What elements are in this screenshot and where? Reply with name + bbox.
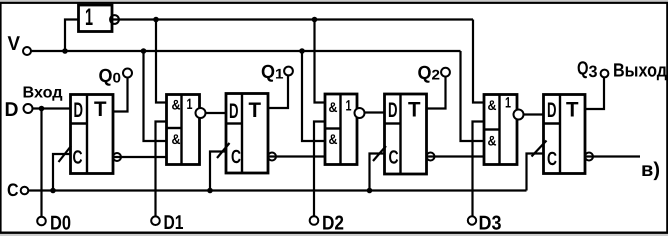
terminal Q2 xyxy=(418,63,450,84)
flip-flop FF4 clock dynamic slash xyxy=(532,141,547,157)
junction C riser FF2 xyxy=(207,188,213,194)
svg-text:Выход: Выход xyxy=(613,61,667,82)
svg-text:D: D xyxy=(547,99,557,122)
svg-text:Q: Q xyxy=(418,63,432,84)
svg-text:1: 1 xyxy=(85,4,93,31)
wire D3 riser xyxy=(473,122,485,217)
flip-flop FF3 inverse output circle xyxy=(427,153,435,161)
wire C riser FF4 xyxy=(527,154,544,191)
flip-flop FF1 box xyxy=(71,95,114,174)
wire FF1 Q output to Q0 terminal xyxy=(113,78,128,112)
junction serial D / D0 tap xyxy=(39,106,45,112)
svg-text:1: 1 xyxy=(505,95,511,112)
svg-text:1: 1 xyxy=(187,96,193,113)
junction V drop stage3 xyxy=(299,48,305,54)
svg-text:&: & xyxy=(172,97,181,113)
AND-OR block S4 output inversion circle xyxy=(514,110,524,120)
junction C riser FF3 xyxy=(367,188,373,194)
svg-text:C: C xyxy=(7,180,19,200)
wire stage4 OR output to FF4 D xyxy=(517,113,544,115)
wire FF2 inverse output to stage3 AND xyxy=(268,155,326,157)
terminal D0 xyxy=(37,213,71,235)
svg-text:Q: Q xyxy=(261,62,275,83)
svg-text:D: D xyxy=(74,99,84,122)
svg-text:C: C xyxy=(389,148,399,169)
wire C riser FF3 xyxy=(370,154,385,191)
flip-flop FF4 box xyxy=(544,95,586,174)
junction inverted-V drop stage2 xyxy=(153,17,159,23)
wire V bus horizontal xyxy=(31,50,461,52)
flip-flop FF3 clock dynamic slash xyxy=(373,146,386,161)
terminal V xyxy=(8,33,32,55)
svg-text:T: T xyxy=(94,98,107,121)
svg-text:&: & xyxy=(488,133,497,149)
wire inverter input riser xyxy=(65,20,79,52)
flip-flop FF1 inverse output circle xyxy=(113,153,121,161)
wire C riser FF1 xyxy=(53,154,71,191)
svg-text:C: C xyxy=(73,148,83,169)
frame right border xyxy=(666,2,668,233)
wire FF4 Q output to Q3 terminal xyxy=(585,78,604,110)
svg-text:T: T xyxy=(566,99,579,122)
terminal D2 xyxy=(310,213,344,235)
terminal D3 xyxy=(468,213,502,235)
junction V at inverter tap xyxy=(62,48,68,54)
svg-text:Вход: Вход xyxy=(23,85,63,102)
wire FF3 Q output to Q2 terminal xyxy=(427,77,446,109)
frame left border xyxy=(0,2,2,233)
svg-text:&: & xyxy=(329,99,338,115)
wire V drop stage2 xyxy=(144,51,167,141)
terminal D serial input xyxy=(5,99,33,121)
svg-text:&: & xyxy=(172,131,181,147)
svg-text:3: 3 xyxy=(589,63,598,81)
svg-text:D: D xyxy=(5,99,19,121)
terminal Q0 xyxy=(99,66,133,87)
svg-text:T: T xyxy=(408,99,421,122)
svg-text:D3: D3 xyxy=(479,213,502,235)
terminal C xyxy=(7,180,28,200)
wire inverted-V drop stage2 xyxy=(156,20,166,103)
svg-text:T: T xyxy=(249,99,262,122)
svg-text:D: D xyxy=(388,99,398,122)
frame top border xyxy=(0,2,668,4)
svg-text:2: 2 xyxy=(432,67,441,83)
svg-text:D0: D0 xyxy=(50,213,71,235)
wire FF2 Q output to Q1 terminal xyxy=(268,75,288,109)
wire C bus horizontal xyxy=(28,189,526,191)
terminal Q1 xyxy=(261,62,293,83)
svg-text:D2: D2 xyxy=(322,213,344,235)
flip-flop FF3 box xyxy=(385,94,427,174)
AND-OR block S2 xyxy=(167,95,200,165)
wire FF4 inverse output stub xyxy=(585,155,640,157)
svg-text:D: D xyxy=(229,100,239,123)
flip-flop FF2 box xyxy=(226,94,268,174)
flip-flop FF2 clock dynamic slash xyxy=(217,143,230,158)
wire FF3 inverse output to stage4 AND xyxy=(427,155,485,157)
wire V drop stage3 xyxy=(302,51,326,141)
svg-text:&: & xyxy=(329,131,338,147)
svg-text:V: V xyxy=(8,33,21,55)
AND-OR block S3 output inversion circle xyxy=(355,108,365,118)
svg-text:&: & xyxy=(488,97,497,113)
AND-OR block S3 xyxy=(325,94,357,165)
terminal Q3 xyxy=(577,59,608,82)
flip-flop FF1 clock dynamic slash xyxy=(59,146,72,162)
wire inverted-V drop stage4 xyxy=(473,20,484,103)
svg-text:C: C xyxy=(547,149,557,170)
svg-text:D1: D1 xyxy=(164,212,184,234)
junction V drop stage2 xyxy=(141,48,147,54)
AND-OR block S2 output inversion circle xyxy=(196,108,206,118)
wire FF1 inverse output to stage2 AND xyxy=(113,156,166,158)
frame top gray margin xyxy=(0,0,668,2)
frame bottom border xyxy=(0,232,668,234)
inverter U5 output inversion circle xyxy=(110,15,119,24)
terminal D1 xyxy=(151,212,183,234)
wire stage2 OR output to FF2 D xyxy=(199,112,226,114)
flip-flop FF4 inverse output circle xyxy=(585,153,593,161)
junction inverted-V drop stage3 xyxy=(312,17,318,23)
svg-text:в): в) xyxy=(641,159,660,181)
frame bottom gray margin xyxy=(0,234,668,236)
wire V drop stage4 xyxy=(461,51,485,141)
flip-flop FF2 inverse output circle xyxy=(268,153,276,161)
wire D2 riser xyxy=(314,122,326,217)
svg-text:1: 1 xyxy=(346,98,352,115)
wire C riser FF2 xyxy=(210,152,226,191)
wire inverted-V bus horizontal xyxy=(112,18,473,20)
svg-text:1: 1 xyxy=(275,66,284,82)
wire serial input D to FF1 xyxy=(33,107,71,109)
junction C riser FF1 xyxy=(50,188,56,194)
wire stage3 OR output to FF3 D xyxy=(358,111,385,113)
wire D0 riser xyxy=(40,109,42,217)
wire inverted-V drop stage3 xyxy=(315,20,326,103)
svg-text:Q: Q xyxy=(577,59,589,80)
wire D1 riser xyxy=(156,122,167,217)
inverter U5 box xyxy=(79,4,113,32)
AND-OR block S4 xyxy=(484,95,517,165)
svg-text:C: C xyxy=(231,147,241,168)
svg-text:0: 0 xyxy=(113,70,122,86)
svg-text:Q: Q xyxy=(99,66,113,87)
